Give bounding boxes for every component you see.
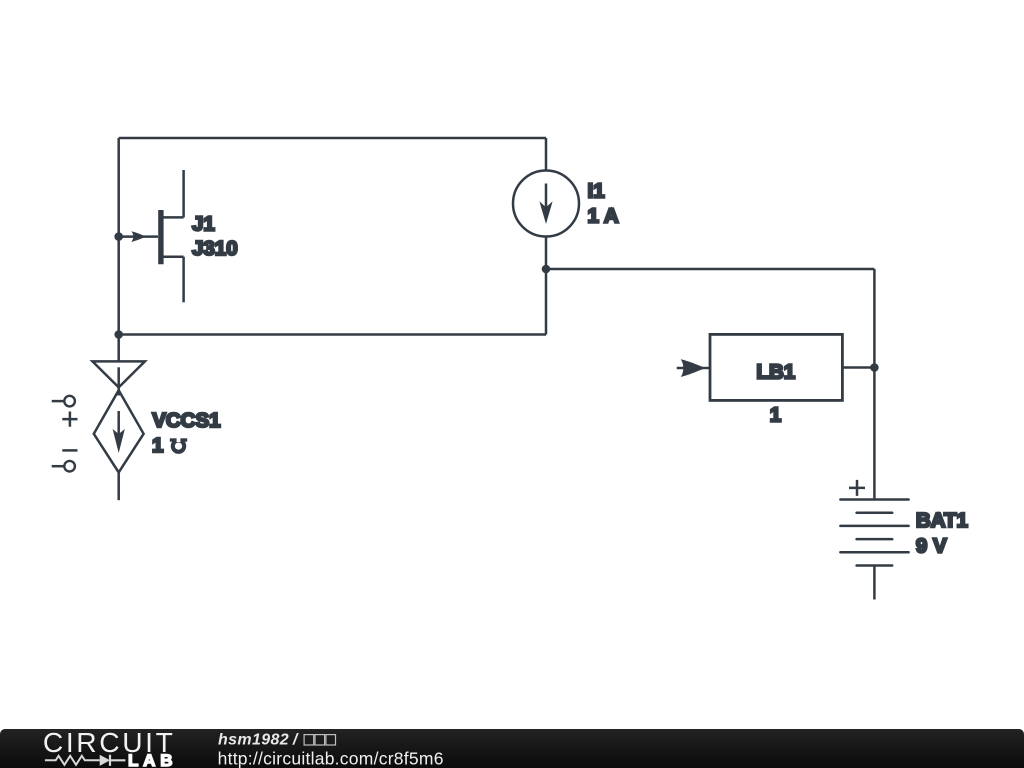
svg-text:hsm1982: hsm1982: [218, 732, 289, 749]
current source I1: [513, 171, 579, 237]
node: I1 tap: [542, 265, 551, 274]
terminal: VCCS control -: [52, 450, 78, 471]
VCCS1 dependent source: [93, 335, 145, 501]
wire: right loop lower segment from I1: [545, 236, 548, 335]
svg-text:http://circuitlab.com/cr8f5m6: http://circuitlab.com/cr8f5m6: [218, 748, 444, 768]
svg-text:/: /: [292, 732, 299, 749]
wire: top loop segment: [119, 137, 546, 140]
node: gate tap on left rail: [114, 232, 123, 241]
LB1 block (light bulb): [677, 334, 875, 400]
mho symbol (inverted ohm) of VCCS1 value: [170, 437, 187, 452]
terminal: VCCS control +: [52, 396, 78, 427]
wire: bottom loop segment: [119, 333, 546, 336]
node: LB1 tap on right rail: [870, 363, 879, 372]
wire: horizontal net from I1 node to right rail: [546, 268, 874, 271]
footer bar: [0, 729, 1024, 768]
footer missing-glyph boxes: [304, 735, 335, 745]
transistor J1 (JFET): [119, 170, 184, 302]
logo resistor squiggle: [45, 756, 100, 765]
svg-text:LAB: LAB: [128, 751, 177, 768]
wire: left loop segment: [117, 138, 120, 335]
battery BAT1: [840, 480, 908, 600]
node: VCCS tap on left rail: [114, 330, 123, 339]
wire: right rail down to battery: [873, 269, 876, 500]
logo diode: [100, 755, 110, 766]
wire: right loop upper segment into I1: [545, 138, 548, 171]
